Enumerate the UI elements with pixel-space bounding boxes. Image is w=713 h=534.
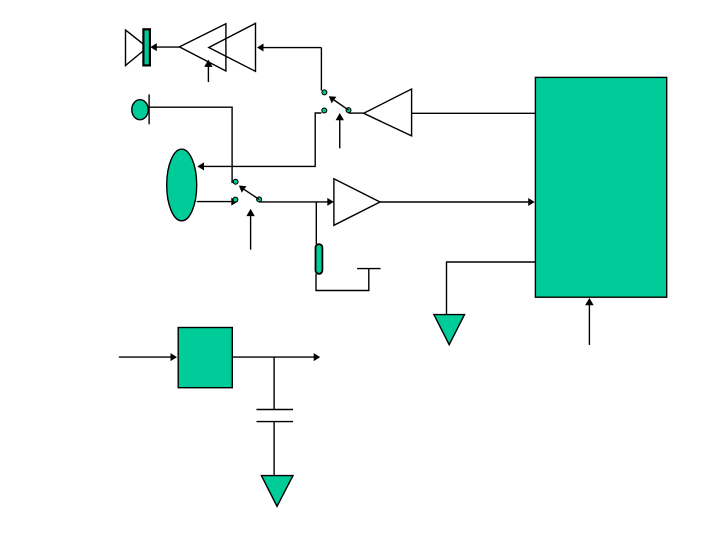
wire block U1 to buffer U2: [412, 112, 536, 114]
wire switch S1 to amp A1: [257, 44, 321, 91]
speaker SPK1 element bar: [143, 29, 150, 65]
control arrow into block U1 bottom: [585, 298, 594, 345]
switch S2 arm: [239, 186, 259, 200]
earpiece SPK2: [167, 149, 197, 221]
output wire from regulator: [232, 353, 320, 361]
microphone MIC1 diaphragm line: [148, 94, 150, 124]
wire block U1 to ground G1: [447, 262, 536, 315]
wire amp U3 to block U1: [380, 198, 535, 206]
block U1: [535, 77, 666, 297]
amp A2: [179, 24, 226, 71]
amp A1: [209, 23, 256, 71]
capacitor C1 top plate: [257, 409, 294, 411]
wire junction to bias element: [315, 202, 317, 244]
wire MIC1 to switch S2 top throw: [149, 107, 232, 183]
switch S1 pole dot: [346, 108, 351, 113]
control arrow into amp A2: [204, 60, 212, 83]
wire capacitor C1 to ground G2: [273, 422, 275, 476]
switch S1 control arrow: [336, 113, 344, 148]
switch S1 throw dot top: [322, 90, 327, 95]
wire earpiece to switch S2 left throw: [197, 198, 238, 206]
switch S2 throw dot left: [233, 197, 238, 202]
switch S2 throw dot top: [233, 179, 238, 184]
regulator block: [178, 328, 232, 388]
amp U3: [334, 179, 380, 226]
switch S2 control arrow: [246, 209, 254, 250]
switch S1 throw dot bottom: [322, 108, 327, 113]
wire switch S2 pole to amp U3: [259, 198, 334, 206]
wire switch S1 pole to buffer U2: [349, 112, 364, 114]
speaker SPK1 cone: [126, 30, 148, 66]
wire junction to capacitor C1: [273, 357, 275, 409]
terminal T1 bar: [357, 268, 381, 270]
ground G1: [434, 315, 465, 345]
microphone MIC1 body: [132, 100, 148, 120]
switch S1 arm: [329, 96, 349, 110]
wire bias element to terminal T1: [316, 269, 369, 291]
wire switch S1 bottom throw to earpiece: [197, 113, 321, 170]
wire amp A2 output to speaker: [150, 43, 179, 51]
input arrow to regulator block: [119, 353, 177, 361]
buffer U2: [364, 89, 412, 136]
capacitor C1 bottom plate: [257, 421, 294, 423]
ground G2: [261, 476, 293, 507]
switch S2 pole dot: [257, 197, 262, 202]
bias element bar: [316, 244, 323, 274]
